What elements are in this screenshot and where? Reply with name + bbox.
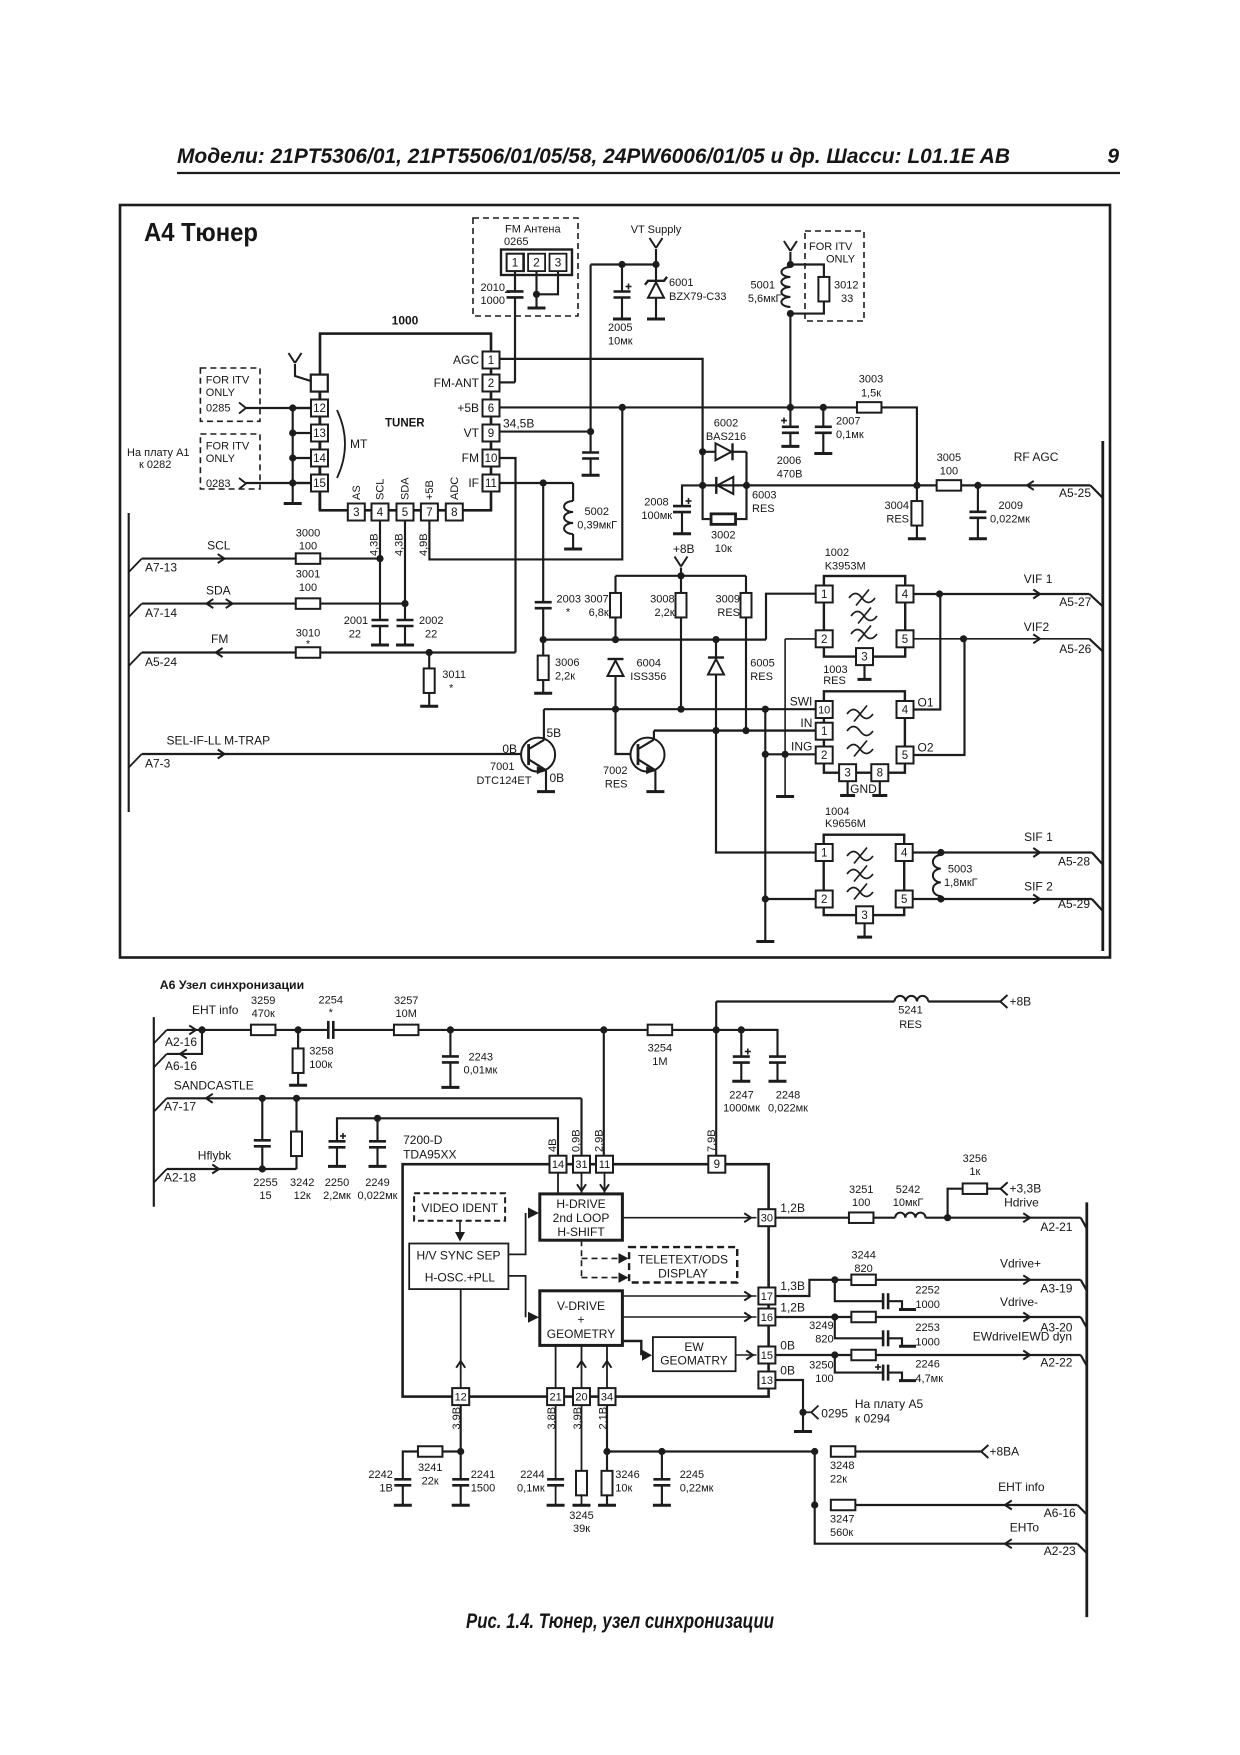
wire pin13 — [775, 1380, 803, 1412]
inductor 5242 — [895, 1213, 925, 1218]
svg-text:33: 33 — [841, 293, 853, 305]
IC 1004 pin 1 — [816, 844, 833, 861]
junction 3247 — [811, 1501, 818, 1508]
wire pin30 row — [775, 1217, 849, 1219]
svg-text:0,022мк: 0,022мк — [768, 1103, 808, 1115]
svg-text:2247: 2247 — [729, 1090, 753, 1102]
connector pin 2 — [528, 254, 545, 271]
wire 7002 base — [616, 709, 631, 754]
wire pin3 down and left — [537, 271, 559, 294]
wire 0295 ground — [802, 1412, 804, 1430]
ground 2008 — [673, 532, 691, 535]
capacitor 2255 — [261, 1098, 263, 1140]
ground 2250 — [328, 1165, 346, 1168]
svg-text:470B: 470B — [777, 469, 803, 481]
flag +8B — [1000, 995, 1007, 1008]
wire pin12-13 — [318, 417, 320, 425]
wire RF AGC — [702, 484, 1091, 486]
svg-text:ONLY: ONLY — [206, 387, 236, 399]
wire O2 — [914, 639, 965, 755]
svg-text:12: 12 — [313, 403, 326, 415]
svg-text:3246: 3246 — [615, 1469, 639, 1481]
wire antbox to pin12 — [318, 392, 320, 400]
svg-text:15: 15 — [259, 1190, 271, 1202]
junction 2255 bottom — [259, 1165, 266, 1172]
arrow SANDCASTLE — [206, 1094, 213, 1103]
svg-text:SDA: SDA — [206, 584, 231, 598]
IC 1004 pin 4 — [896, 844, 913, 861]
arrow A3-19 — [1023, 1275, 1030, 1284]
svg-text:+5B: +5B — [457, 401, 479, 415]
svg-text:+: + — [577, 1313, 584, 1327]
svg-text:3244: 3244 — [851, 1250, 875, 1262]
resistor 3011 — [428, 653, 430, 669]
junction 1004 pin2 — [762, 895, 769, 902]
tuner pin 1 AGC — [483, 352, 500, 369]
svg-text:3: 3 — [353, 507, 359, 519]
wire EHT info — [167, 1029, 251, 1031]
svg-text:Hflybk: Hflybk — [198, 1149, 232, 1163]
wire IF pin11 — [500, 482, 574, 484]
svg-text:1: 1 — [821, 726, 827, 738]
arrow FM — [216, 648, 223, 657]
svg-text:4,9B: 4,9B — [418, 533, 430, 556]
wire FM-ANT pin2 — [500, 381, 516, 383]
block EW GEOMATRY — [653, 1337, 736, 1371]
svg-text:1000: 1000 — [915, 1337, 939, 1349]
tuner pin 3 — [348, 504, 365, 521]
capacitor 2008 polarized — [682, 485, 702, 506]
wire pin12 down — [460, 1405, 462, 1451]
IC pin 34 — [599, 1388, 616, 1405]
antenna ITV — [784, 241, 791, 251]
junction 1004 riser — [762, 706, 769, 713]
svg-text:2250: 2250 — [325, 1177, 349, 1189]
svg-text:6,8к: 6,8к — [589, 607, 609, 619]
wire pin6-9 — [490, 417, 492, 425]
ground 2245 — [653, 1504, 671, 1507]
svg-text:3009: 3009 — [716, 594, 740, 606]
svg-text:IF: IF — [468, 476, 479, 490]
svg-text:20: 20 — [575, 1392, 587, 1404]
svg-text:21: 21 — [549, 1392, 561, 1404]
capacitor 2247 polarized — [740, 1030, 742, 1056]
tuner TU1000 body — [320, 334, 491, 511]
svg-text:3257: 3257 — [394, 995, 418, 1007]
connector pin 1 — [507, 254, 524, 271]
svg-text:10: 10 — [818, 705, 830, 717]
svg-text:FOR ITV: FOR ITV — [206, 375, 250, 387]
svg-text:22: 22 — [425, 629, 437, 641]
ground VT cap — [582, 474, 600, 477]
wire 5241 to +8B — [928, 1000, 1000, 1002]
wire 3002 right — [737, 485, 747, 519]
wire pin10-11 — [490, 467, 492, 475]
svg-text:TDA95XX: TDA95XX — [403, 1148, 456, 1162]
junction 5001 bottom — [787, 310, 794, 317]
resistor 3004 — [916, 485, 918, 501]
svg-text:820: 820 — [854, 1263, 872, 1275]
svg-text:2: 2 — [821, 634, 827, 646]
wire pin1 down — [514, 271, 516, 291]
wire FM pin10 — [500, 458, 516, 653]
junction 2249 — [374, 1115, 381, 1122]
wire SIF2 — [913, 898, 1092, 900]
A4 section border — [120, 205, 1110, 958]
svg-text:A3-19: A3-19 — [1040, 1282, 1072, 1296]
wire 5001 to +5B rail — [789, 314, 791, 408]
tuner pin 14 — [311, 450, 328, 467]
svg-text:A4 Тюнер: A4 Тюнер — [144, 217, 258, 247]
svg-text:5002: 5002 — [585, 506, 609, 518]
svg-text:K3953M: K3953M — [825, 561, 866, 573]
svg-text:1,5к: 1,5к — [861, 388, 881, 400]
junction 3011 — [426, 649, 433, 656]
junction 3007 — [612, 636, 619, 643]
svg-text:A7-13: A7-13 — [145, 561, 177, 575]
svg-text:2003: 2003 — [557, 594, 581, 606]
capacitor 2001 — [379, 559, 381, 620]
svg-text:14: 14 — [313, 453, 326, 465]
flag A2-18 — [154, 1169, 167, 1183]
junction 5003 bottom — [937, 895, 944, 902]
svg-text:0B: 0B — [780, 1364, 795, 1378]
svg-text:*: * — [306, 639, 311, 651]
flag A7-13 — [129, 559, 142, 573]
svg-text:1,2B: 1,2B — [780, 1201, 805, 1215]
wire AGC pin1 — [500, 359, 703, 452]
resistor 3246 — [606, 1452, 608, 1472]
svg-text:0,01мк: 0,01мк — [464, 1065, 498, 1077]
svg-text:ISS356: ISS356 — [630, 671, 666, 683]
inductor 5001 — [781, 267, 790, 307]
wire FM row — [142, 651, 516, 653]
ground 2249 — [369, 1165, 387, 1168]
block H-DRIVE 2nd LOOP H-SHIFT — [540, 1194, 623, 1240]
svg-text:ONLY: ONLY — [826, 254, 856, 266]
flag A7-17 — [154, 1098, 167, 1112]
junction left — [699, 482, 706, 489]
svg-text:2241: 2241 — [471, 1469, 495, 1481]
svg-text:1: 1 — [488, 355, 494, 367]
wire pin11 to H-DRIVE — [604, 1173, 606, 1194]
left bus MT — [292, 408, 294, 502]
wire pin31 riser — [580, 1098, 582, 1155]
svg-text:4,7мк: 4,7мк — [915, 1373, 943, 1385]
svg-text:3241: 3241 — [418, 1462, 442, 1474]
diode 6004 ISS356 — [608, 658, 624, 660]
flag A6-16 — [154, 1054, 167, 1068]
wire pin2 1002 ground net — [784, 639, 786, 795]
svg-text:3249: 3249 — [809, 1320, 833, 1332]
wire hdrive to pin30 — [622, 1217, 756, 1219]
svg-text:4: 4 — [377, 507, 384, 519]
svg-text:к 0282: к 0282 — [139, 459, 171, 471]
tuner pin 6 +5B — [483, 400, 500, 417]
svg-text:FOR ITV: FOR ITV — [809, 241, 853, 253]
svg-text:0,022мк: 0,022мк — [990, 514, 1030, 526]
wire pin9 riser — [715, 1030, 717, 1156]
wire vdrive to pin34 — [606, 1345, 608, 1388]
arrow VIF2 — [1033, 634, 1040, 643]
svg-text:EHT info: EHT info — [998, 1480, 1045, 1494]
svg-text:3003: 3003 — [859, 374, 883, 386]
svg-text:A6-16: A6-16 — [1044, 1506, 1076, 1520]
IC pin 13 — [758, 1372, 775, 1389]
junction 2005 — [618, 261, 625, 268]
svg-text:A5-26: A5-26 — [1059, 642, 1091, 656]
block V-DRIVE GEOMETRY — [540, 1291, 623, 1346]
IC 1003 pin 4 — [897, 701, 914, 718]
svg-text:2009: 2009 — [999, 500, 1023, 512]
svg-text:2245: 2245 — [680, 1469, 704, 1481]
arrow SIF1 — [1033, 848, 1040, 857]
svg-text:3002: 3002 — [711, 530, 735, 542]
VT supply symbol — [650, 238, 657, 248]
wire SANDCASTLE — [167, 1097, 582, 1099]
svg-text:5: 5 — [402, 507, 408, 519]
svg-text:SIF 2: SIF 2 — [1024, 880, 1053, 894]
arrow A6-16 — [180, 1049, 187, 1058]
tuner pin 5 — [397, 504, 414, 521]
svg-text:13: 13 — [313, 428, 326, 440]
wire A6-16 — [167, 1030, 202, 1054]
junction A6-16 — [198, 1026, 205, 1033]
wire Hflybk — [167, 1168, 297, 1170]
arrow SDA left — [207, 599, 214, 608]
wire +8B row — [716, 1000, 894, 1002]
svg-text:3001: 3001 — [296, 569, 320, 581]
wire 5242 to flag — [926, 1217, 1081, 1219]
svg-text:RES: RES — [605, 779, 628, 791]
junction — [289, 479, 296, 486]
svg-text:2,2мк: 2,2мк — [323, 1190, 351, 1202]
svg-text:RES: RES — [823, 675, 846, 687]
svg-text:На плату A1: На плату A1 — [127, 447, 190, 459]
ground 2241 — [452, 1504, 470, 1507]
tuner pin 11 IF — [483, 475, 500, 492]
wire 3254 to caps — [672, 1029, 777, 1031]
svg-text:7200-D: 7200-D — [403, 1133, 443, 1147]
arrow A2-22 — [1023, 1351, 1030, 1360]
ground 3246 — [598, 1504, 616, 1507]
svg-text:6002: 6002 — [714, 418, 738, 430]
svg-text:0,022мк: 0,022мк — [358, 1190, 398, 1202]
svg-text:10к: 10к — [715, 543, 732, 555]
flag A6-16 bottom — [1077, 1505, 1087, 1515]
wire pin2 down — [535, 271, 537, 294]
junction 2252 — [831, 1276, 838, 1283]
ground MT bus — [284, 502, 302, 505]
resistor 3000 — [296, 553, 321, 564]
wire SIF1 — [913, 851, 1092, 853]
svg-text:*: * — [566, 607, 571, 619]
wire EHT info out — [855, 1504, 1077, 1506]
junction 2255 — [259, 1095, 266, 1102]
wire IF node bus — [543, 638, 766, 640]
arrow SDA right — [226, 599, 233, 608]
junction +8B riser — [713, 1026, 720, 1033]
svg-text:O2: O2 — [918, 741, 934, 755]
capacitor 2248 — [741, 1030, 777, 1056]
svg-text:1004: 1004 — [825, 806, 849, 818]
svg-text:34: 34 — [601, 1392, 613, 1404]
junction 3008 — [677, 706, 684, 713]
arrow A2-21 — [1023, 1213, 1030, 1222]
svg-text:2255: 2255 — [253, 1177, 277, 1189]
svg-text:0283: 0283 — [206, 478, 230, 490]
svg-text:3012: 3012 — [834, 280, 858, 292]
svg-text:FM Антена: FM Антена — [505, 224, 561, 236]
FOR ITV ONLY dashed box 0283 — [200, 434, 260, 489]
flag A2-16 — [154, 1030, 167, 1044]
dashed wire teletext — [581, 1240, 583, 1277]
svg-text:+8BA: +8BA — [990, 1445, 1020, 1459]
wire EHTo — [815, 1505, 1078, 1544]
wire SDA — [142, 603, 405, 605]
IC 7200-D body — [403, 1164, 769, 1396]
svg-text:7001: 7001 — [490, 761, 514, 773]
capacitor 2249 — [376, 1118, 378, 1141]
wire vdrive to pin16 — [622, 1316, 756, 1318]
IC pin 20 — [573, 1388, 590, 1405]
ground 2005 — [613, 318, 631, 321]
arrow RF AGC — [1027, 481, 1034, 490]
svg-text:4,3B: 4,3B — [369, 533, 381, 556]
svg-text:2249: 2249 — [365, 1177, 389, 1189]
svg-text:0B: 0B — [780, 1339, 795, 1353]
capacitor 2254 — [327, 1021, 330, 1039]
capacitor 2253 — [835, 1317, 883, 1338]
svg-text:VT: VT — [464, 426, 480, 440]
junction — [289, 404, 296, 411]
capacitor 2009 — [977, 485, 979, 511]
svg-text:2,2к: 2,2к — [654, 607, 674, 619]
capacitor 2010 — [507, 290, 524, 293]
ground — [528, 307, 546, 310]
svg-text:1000: 1000 — [915, 1299, 939, 1311]
resistor 3259 — [251, 1025, 276, 1036]
junction pins 2-3 — [533, 291, 540, 298]
svg-text:1000: 1000 — [392, 314, 419, 328]
svg-text:22: 22 — [349, 629, 361, 641]
svg-text:4,3B: 4,3B — [394, 533, 406, 556]
wire riser to 1004 — [764, 709, 766, 940]
svg-text:5001: 5001 — [751, 280, 775, 292]
junction diode top — [699, 448, 706, 455]
svg-text:A7-17: A7-17 — [164, 1100, 196, 1114]
ground pin2 net — [776, 795, 794, 798]
right bus A6 — [1085, 1202, 1088, 1617]
svg-text:3: 3 — [861, 652, 867, 664]
resistor 3006 — [542, 640, 544, 658]
IC 1003 pin 5 — [897, 747, 914, 764]
svg-text:11: 11 — [599, 1159, 610, 1171]
svg-text:3006: 3006 — [555, 657, 579, 669]
junction 5003 top — [937, 849, 944, 856]
svg-text:ADC: ADC — [449, 477, 461, 500]
arrow EHT info — [189, 1025, 196, 1034]
wire IN line — [654, 729, 815, 731]
capacitor 2241 — [460, 1452, 462, 1480]
resistor 3256 — [963, 1183, 988, 1194]
svg-text:ONLY: ONLY — [206, 453, 236, 465]
svg-text:100: 100 — [940, 466, 958, 478]
tuner antenna symbol — [289, 353, 296, 363]
header rule — [177, 172, 1120, 174]
svg-text:14: 14 — [552, 1159, 564, 1171]
tuner pin 9 VT — [483, 425, 500, 442]
svg-text:0,39мкГ: 0,39мкГ — [577, 520, 617, 532]
svg-text:39к: 39к — [573, 1523, 590, 1535]
junction 6001 — [652, 261, 659, 268]
junction 2003/3006 — [540, 636, 547, 643]
flag A2-22 — [1081, 1355, 1087, 1366]
wire 3257 to 3254 — [419, 1029, 648, 1031]
svg-text:EWdriveIEWD dyn: EWdriveIEWD dyn — [973, 1330, 1072, 1344]
resistor 3008 — [680, 576, 682, 594]
diode 6002 BAS216 — [703, 451, 716, 453]
tuner pin 8 — [446, 504, 463, 521]
IC 1003 pin 10 — [816, 701, 833, 718]
TELETEXT/ODS DISPLAY dashed box — [629, 1247, 737, 1282]
svg-text:1000: 1000 — [481, 295, 505, 307]
wire O1 — [914, 594, 941, 710]
junction 2009 — [974, 482, 981, 489]
svg-text:VIDEO IDENT: VIDEO IDENT — [421, 1201, 498, 1215]
IC 1004 pin 2 — [816, 891, 833, 908]
wire 3002 left — [703, 485, 710, 519]
svg-text:EHT info: EHT info — [192, 1003, 239, 1017]
IC 1003 pin 2 — [816, 747, 833, 764]
capacitor 2002 — [404, 604, 406, 620]
junction 3242 — [293, 1095, 300, 1102]
svg-text:2010: 2010 — [481, 282, 505, 294]
resistor 3241 — [418, 1446, 443, 1457]
wire 6004 down — [614, 676, 616, 709]
svg-text:3: 3 — [555, 256, 562, 270]
resistor 3010 — [296, 647, 321, 658]
svg-text:RF AGC: RF AGC — [1014, 450, 1059, 464]
flag A2-21 — [1081, 1218, 1087, 1229]
svg-text:1002: 1002 — [825, 547, 849, 559]
ground 2247 — [732, 1080, 750, 1083]
wire pin20 down — [581, 1405, 583, 1472]
resistor 3003 — [857, 402, 882, 413]
svg-text:На плату A5: На плату A5 — [855, 1397, 924, 1411]
arrow VIF1 — [1033, 590, 1040, 599]
svg-text:820: 820 — [815, 1334, 833, 1346]
block H/V SYNC SEP + H-OSC — [409, 1244, 508, 1290]
svg-text:A2-16: A2-16 — [165, 1035, 197, 1049]
svg-text:3: 3 — [861, 910, 867, 922]
svg-text:0295: 0295 — [821, 1406, 848, 1420]
svg-text:DTC124ET: DTC124ET — [476, 775, 531, 787]
wire pin17 row — [775, 1280, 1080, 1296]
svg-text:7,9B: 7,9B — [706, 1129, 718, 1152]
wire ING line — [765, 753, 815, 755]
svg-text:A2-22: A2-22 — [1040, 1356, 1072, 1370]
ground 2244 — [547, 1504, 565, 1507]
svg-text:4: 4 — [902, 705, 909, 717]
capacitor 2246 polarized — [835, 1355, 883, 1373]
arrow SEL — [218, 750, 225, 759]
wire stub — [293, 457, 311, 459]
diode 6003 — [715, 477, 717, 494]
svg-text:2001: 2001 — [344, 615, 368, 627]
wire pin13-14 — [318, 442, 320, 450]
ground 2007 — [814, 452, 832, 455]
